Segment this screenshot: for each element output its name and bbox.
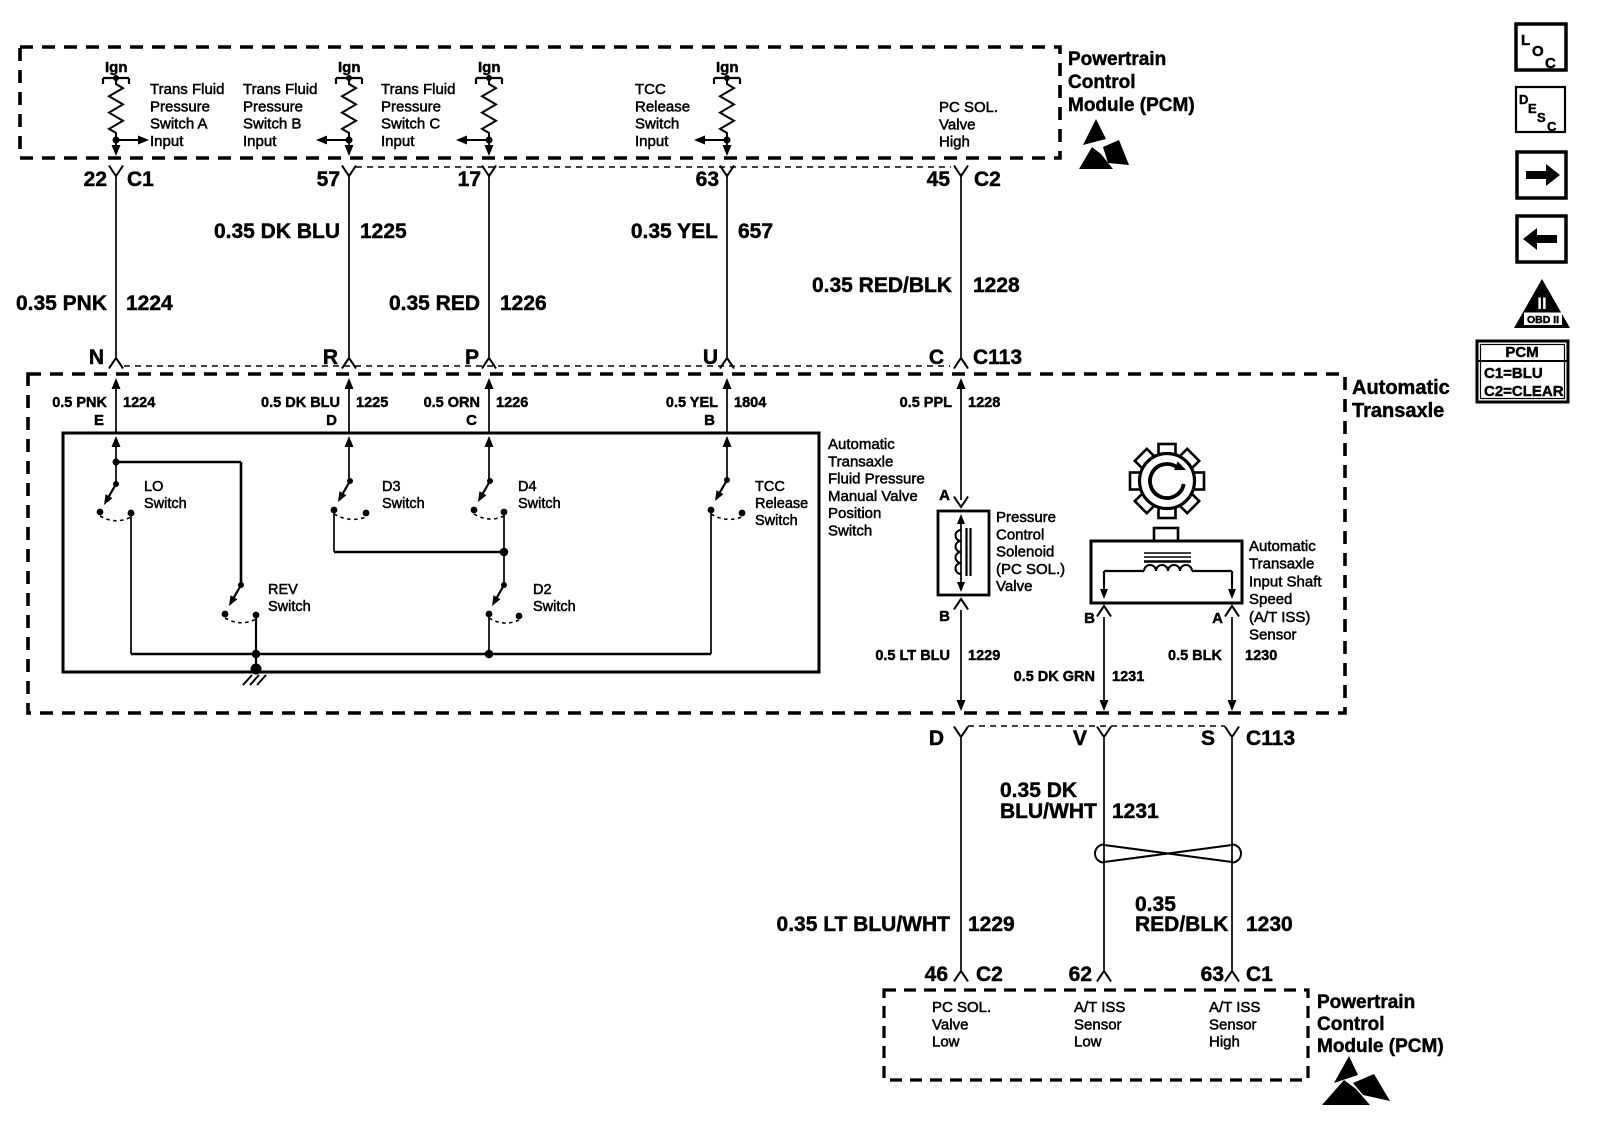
svg-text:Valve: Valve: [996, 578, 1032, 595]
svg-text:Module (PCM): Module (PCM): [1317, 1036, 1444, 1057]
label Automatic Transaxle: [1352, 377, 1450, 422]
signal arrow Trans Fluid Pressure Switch B: [316, 136, 349, 145]
svg-text:Switch: Switch: [144, 496, 187, 512]
svg-text:Switch: Switch: [828, 523, 872, 540]
svg-text:Valve: Valve: [939, 116, 975, 133]
svg-text:Ign: Ign: [478, 59, 501, 76]
svg-text:RED/BLK: RED/BLK: [1135, 913, 1228, 936]
svg-text:Switch: Switch: [382, 496, 425, 512]
svg-text:S: S: [1537, 110, 1546, 125]
svg-text:46: 46: [925, 963, 948, 986]
svg-text:Pressure: Pressure: [150, 98, 210, 115]
svg-text:Trans Fluid: Trans Fluid: [381, 81, 455, 98]
connector dashed line C2 row: [356, 166, 951, 168]
wire label 0.35 DK BLU/WHT 1231: [1000, 779, 1159, 823]
wire D3 contact down: [333, 510, 335, 552]
switch D4: [471, 478, 508, 519]
wire D3 to D4 link: [334, 551, 504, 554]
junction D2 at ground bus: [485, 650, 494, 659]
wire 1225 DK BLU: [348, 176, 350, 357]
svg-text:Low: Low: [932, 1034, 960, 1051]
svg-text:(PC SOL.): (PC SOL.): [996, 561, 1065, 578]
svg-text:C113: C113: [1246, 727, 1295, 750]
label LO: [144, 479, 187, 512]
resistor Trans Fluid Pressure Switch A: [109, 80, 123, 137]
wire 1229 LT BLU inside transaxle: [957, 610, 966, 711]
connector pin 63 bottom C1: [1201, 963, 1274, 986]
svg-text:45: 45: [927, 168, 951, 191]
svg-text:Valve: Valve: [932, 1016, 968, 1033]
svg-text:1229: 1229: [968, 648, 1000, 664]
svg-text:Transaxle: Transaxle: [1249, 556, 1314, 573]
connector pin 63: [696, 166, 734, 192]
svg-text:O: O: [1532, 43, 1544, 60]
svg-text:1224: 1224: [123, 395, 155, 411]
connector dashed line C113 top row: [124, 365, 950, 367]
svg-text:Transaxle: Transaxle: [828, 453, 893, 470]
junction REV at ground bus: [252, 650, 261, 659]
svg-text:Control: Control: [996, 526, 1044, 543]
svg-text:PCM: PCM: [1505, 344, 1538, 361]
svg-text:Automatic: Automatic: [1249, 538, 1316, 555]
label Powertrain Control Module (PCM) top: [1068, 49, 1195, 116]
svg-text:Switch: Switch: [755, 513, 798, 529]
svg-text:C113: C113: [973, 346, 1022, 369]
wire label 0.5 DK GRN 1231: [1014, 669, 1145, 685]
svg-text:A/T ISS: A/T ISS: [1074, 999, 1125, 1016]
svg-text:Position: Position: [828, 505, 881, 522]
svg-text:TCC: TCC: [635, 81, 666, 98]
label Trans Fluid Pressure Switch A Input: [150, 81, 224, 150]
wire D2 contact to ground bus: [488, 614, 490, 654]
svg-text:1230: 1230: [1246, 913, 1293, 936]
svg-text:Sensor: Sensor: [1249, 627, 1297, 644]
wire entry 0.5 ORN 1226: [424, 378, 529, 433]
svg-text:PC SOL.: PC SOL.: [932, 999, 991, 1016]
ground bus wire: [131, 653, 711, 656]
svg-text:Input: Input: [243, 133, 277, 150]
svg-text:C: C: [1545, 55, 1556, 72]
svg-text:0.5 DK GRN: 0.5 DK GRN: [1014, 669, 1095, 685]
switch TCC Release: [708, 477, 746, 519]
Ign feed Trans Fluid Pressure Switch C: [476, 59, 502, 84]
connector C113 terminal N: [89, 346, 123, 369]
svg-text:Release: Release: [635, 98, 690, 115]
wire TCC contact to ground bus: [710, 510, 712, 654]
wire label 0.35 YEL 657: [631, 220, 773, 243]
connector pin 17: [458, 166, 496, 192]
svg-text:Sensor: Sensor: [1209, 1016, 1257, 1033]
svg-text:TCC: TCC: [755, 479, 785, 495]
signal arrow TCC Release Switch: [694, 136, 727, 145]
svg-text:C2: C2: [976, 963, 1003, 986]
svg-text:Input: Input: [150, 133, 184, 150]
icon LOC button: [1516, 24, 1566, 72]
svg-text:0.5 PNK: 0.5 PNK: [52, 395, 107, 411]
node B ISS sensor: [1084, 606, 1111, 627]
svg-text:Input: Input: [635, 133, 669, 150]
wire to pin TCC Release Switch: [723, 140, 732, 156]
svg-text:Pressure: Pressure: [996, 509, 1056, 526]
svg-text:Input Shaft: Input Shaft: [1249, 573, 1322, 590]
resistor TCC Release Switch: [720, 80, 734, 137]
svg-text:1225: 1225: [360, 220, 407, 243]
svg-text:1230: 1230: [1245, 648, 1277, 664]
svg-text:Release: Release: [755, 496, 808, 512]
wire 1228 RED/BLK: [960, 176, 962, 357]
svg-text:U: U: [703, 346, 718, 369]
Ign feed TCC Release Switch: [714, 59, 740, 84]
ESD sensitive device symbol (bottom): [1322, 1056, 1390, 1105]
wire to pin Trans Fluid Pressure Switch C: [485, 140, 494, 156]
svg-text:0.35 LT BLU/WHT: 0.35 LT BLU/WHT: [777, 913, 951, 936]
svg-text:(A/T ISS): (A/T ISS): [1249, 609, 1310, 626]
svg-text:D: D: [1519, 92, 1528, 107]
svg-text:II: II: [1537, 294, 1546, 313]
svg-text:C2=CLEAR: C2=CLEAR: [1484, 383, 1564, 400]
svg-text:A/T ISS: A/T ISS: [1209, 999, 1260, 1016]
wire 1224 PNK: [115, 176, 117, 357]
wire 1230 RED/BLK: [1231, 738, 1233, 970]
svg-text:0.5 PPL: 0.5 PPL: [900, 395, 953, 411]
wire LO contact to ground bus: [130, 513, 132, 654]
label A/T ISS Sensor High: [1209, 999, 1260, 1051]
node A PC SOL valve: [939, 487, 968, 507]
svg-text:17: 17: [458, 168, 481, 191]
svg-text:Low: Low: [1074, 1034, 1102, 1051]
node LO branch junction: [113, 459, 120, 466]
svg-text:0.5 DK BLU: 0.5 DK BLU: [261, 395, 340, 411]
svg-text:1229: 1229: [968, 913, 1015, 936]
switch LO: [97, 481, 135, 521]
wire label 0.5 LT BLU 1229: [875, 648, 1000, 664]
icon back arrow button: [1517, 216, 1566, 262]
ground: [243, 664, 266, 686]
svg-text:C: C: [929, 346, 944, 369]
connector pin 62 bottom: [1069, 963, 1111, 986]
svg-text:0.35 RED/BLK: 0.35 RED/BLK: [812, 274, 952, 297]
wire label 0.35 DK BLU 1225: [214, 220, 407, 243]
icon OBD II: [1514, 279, 1570, 328]
ESD sensitive device symbol (top): [1079, 119, 1129, 169]
svg-text:E: E: [1528, 101, 1537, 116]
svg-text:Trans Fluid: Trans Fluid: [243, 81, 317, 98]
svg-text:Control: Control: [1317, 1014, 1385, 1035]
signal arrow Trans Fluid Pressure Switch A: [116, 136, 149, 145]
wire 657 YEL: [726, 176, 728, 357]
node Trans Fluid Pressure Switch A junction: [113, 137, 120, 144]
wire entry 0.5 PPL 1228: [900, 378, 1001, 500]
svg-text:0.35 RED: 0.35 RED: [389, 292, 480, 315]
node B PC SOL valve: [939, 599, 968, 625]
svg-text:A: A: [1212, 610, 1223, 627]
label Pressure Control Solenoid (PC SOL.) Valve: [996, 509, 1065, 595]
svg-text:V: V: [1073, 727, 1087, 750]
svg-text:1224: 1224: [126, 292, 173, 315]
wire entry 0.5 DK BLU 1225: [261, 378, 388, 433]
wire label 0.35 RED/BLK 1230: [1135, 893, 1293, 936]
svg-text:C: C: [466, 412, 477, 429]
node A ISS sensor: [1212, 606, 1239, 627]
svg-text:C2: C2: [974, 168, 1001, 191]
wire label 0.5 BLK 1230: [1168, 648, 1277, 664]
svg-text:Transaxle: Transaxle: [1352, 400, 1444, 422]
svg-text:High: High: [939, 134, 970, 151]
svg-text:C1=BLU: C1=BLU: [1484, 365, 1543, 382]
svg-text:57: 57: [317, 168, 340, 191]
node TCC Release Switch junction: [724, 137, 731, 144]
svg-text:0.35 DK: 0.35 DK: [1000, 779, 1077, 802]
switch REV: [222, 582, 260, 623]
wire REV contact to ground: [255, 615, 257, 669]
wire 1229 LT BLU/WHT: [960, 738, 962, 970]
wire 1231 DK BLU/WHT: [1103, 738, 1105, 970]
connector pin 46 bottom C2: [925, 963, 1003, 986]
label TCC Release: [755, 479, 808, 529]
svg-text:D4: D4: [518, 479, 537, 495]
wire label 0.35 LT BLU/WHT 1229: [777, 913, 1015, 936]
svg-text:0.5 YEL: 0.5 YEL: [666, 395, 718, 411]
legend PCM connector colors: [1477, 341, 1568, 402]
svg-text:D: D: [326, 412, 337, 429]
svg-text:A: A: [939, 487, 950, 504]
svg-text:C1: C1: [1246, 963, 1273, 986]
svg-text:62: 62: [1069, 963, 1092, 986]
connector C113 terminal S bottom: [1201, 727, 1295, 751]
svg-text:Ign: Ign: [716, 59, 739, 76]
label TCC Release Switch Input: [635, 81, 690, 150]
svg-text:Ign: Ign: [105, 59, 128, 76]
wire entry 0.5 PNK 1224: [52, 378, 155, 433]
wire label 0.35 RED/BLK 1228: [812, 274, 1020, 297]
label Trans Fluid Pressure Switch B Input: [243, 81, 317, 150]
svg-text:1226: 1226: [500, 292, 547, 315]
svg-text:Switch A: Switch A: [150, 116, 208, 133]
svg-text:Pressure: Pressure: [381, 98, 441, 115]
label A/T ISS Sensor Low: [1074, 999, 1125, 1051]
label PC SOL Valve Low: [932, 999, 991, 1051]
svg-text:High: High: [1209, 1034, 1240, 1051]
connector C113 terminal D bottom: [929, 727, 968, 751]
svg-text:C1: C1: [127, 168, 154, 191]
svg-text:0.5 ORN: 0.5 ORN: [424, 395, 480, 411]
svg-text:Trans Fluid: Trans Fluid: [150, 81, 224, 98]
twisted pair symbol: [1095, 845, 1241, 863]
wire to pin Trans Fluid Pressure Switch B: [345, 140, 354, 156]
svg-text:Switch: Switch: [635, 116, 679, 133]
svg-text:Ign: Ign: [338, 59, 361, 76]
svg-text:B: B: [1084, 610, 1095, 627]
resistor Trans Fluid Pressure Switch B: [342, 80, 356, 137]
svg-text:Fluid Pressure: Fluid Pressure: [828, 471, 925, 488]
svg-text:PC SOL.: PC SOL.: [939, 99, 998, 116]
wire stub into switch box: [485, 436, 494, 481]
svg-text:Solenoid: Solenoid: [996, 544, 1054, 561]
svg-text:1226: 1226: [496, 395, 528, 411]
svg-text:E: E: [94, 412, 104, 429]
svg-text:D3: D3: [382, 479, 401, 495]
svg-text:63: 63: [1201, 963, 1224, 986]
svg-text:Powertrain: Powertrain: [1317, 992, 1415, 1013]
wire LO pivot stem: [115, 462, 117, 484]
connector pin 22 C1: [84, 166, 155, 192]
icon DESC button: [1516, 87, 1565, 134]
label D2: [533, 582, 576, 615]
svg-text:0.5 LT BLU: 0.5 LT BLU: [875, 648, 950, 664]
svg-text:Speed: Speed: [1249, 591, 1292, 608]
svg-text:Switch: Switch: [518, 496, 561, 512]
label Automatic Transaxle Input Shaft Speed (A/T ISS) Sensor: [1249, 538, 1322, 644]
svg-text:1804: 1804: [734, 395, 766, 411]
svg-text:Control: Control: [1068, 72, 1136, 93]
connector C113 terminal V bottom: [1073, 727, 1111, 751]
svg-text:L: L: [1521, 32, 1530, 49]
svg-text:BLU/WHT: BLU/WHT: [1000, 800, 1097, 823]
svg-text:C: C: [1547, 119, 1557, 134]
svg-text:Pressure: Pressure: [243, 98, 303, 115]
switch D3: [331, 478, 370, 519]
icon forward arrow button: [1517, 152, 1566, 198]
wire 1226 RED: [488, 176, 490, 357]
svg-text:1228: 1228: [968, 395, 1000, 411]
connector dashed line C113 bottom row: [968, 725, 1225, 727]
resistor Trans Fluid Pressure Switch C: [482, 80, 496, 137]
wire entry 0.5 YEL 1804: [666, 378, 766, 433]
svg-text:B: B: [704, 412, 715, 429]
svg-text:REV: REV: [268, 582, 298, 598]
svg-text:0.35 YEL: 0.35 YEL: [631, 220, 718, 243]
signal arrow Trans Fluid Pressure Switch C: [456, 136, 489, 145]
wire label 0.35 RED 1226: [389, 292, 547, 315]
svg-text:S: S: [1201, 727, 1215, 750]
Automatic Transaxle Fluid Pressure Manual Valve Position Switch box: [63, 433, 819, 672]
solenoid PC SOL valve: [938, 511, 989, 595]
wire stub into switch box: [723, 436, 732, 480]
svg-text:Manual Valve: Manual Valve: [828, 488, 918, 505]
node Trans Fluid Pressure Switch B junction: [346, 137, 353, 144]
svg-text:0.35 DK BLU: 0.35 DK BLU: [214, 220, 340, 243]
svg-text:Sensor: Sensor: [1074, 1016, 1122, 1033]
svg-text:63: 63: [696, 168, 719, 191]
wire 1230 BLK inside transaxle: [1228, 617, 1237, 711]
Ign feed Trans Fluid Pressure Switch B: [336, 59, 362, 84]
wire D4 contact down to D2: [503, 512, 505, 585]
label Manual Valve Position Switch: [828, 436, 925, 540]
svg-text:D2: D2: [533, 582, 552, 598]
svg-text:1225: 1225: [356, 395, 388, 411]
wire stub into switch box: [345, 436, 354, 481]
label D3: [382, 479, 425, 512]
svg-text:1231: 1231: [1112, 800, 1159, 823]
connector pin 45 C2: [927, 166, 1001, 192]
svg-text:Switch: Switch: [533, 599, 576, 615]
PCM module box (top): [20, 47, 1060, 158]
svg-text:Switch B: Switch B: [243, 116, 301, 133]
svg-text:Automatic: Automatic: [828, 436, 895, 453]
wire to pin Trans Fluid Pressure Switch A: [112, 140, 121, 156]
svg-text:Switch C: Switch C: [381, 116, 440, 133]
svg-text:1228: 1228: [973, 274, 1020, 297]
label Powertrain Control Module (PCM) bottom: [1317, 992, 1444, 1057]
svg-text:0.35 PNK: 0.35 PNK: [16, 292, 107, 315]
svg-text:Automatic: Automatic: [1352, 377, 1450, 399]
svg-text:Switch: Switch: [268, 599, 311, 615]
Automatic Transaxle box: [28, 374, 1345, 713]
junction D3/D4 link: [500, 548, 509, 557]
svg-text:N: N: [89, 346, 104, 369]
svg-text:Module (PCM): Module (PCM): [1068, 95, 1195, 116]
wire stub into switch box: [112, 436, 121, 462]
connector C113 terminal U: [703, 346, 734, 369]
wire 1231 DK GRN inside transaxle: [1100, 617, 1109, 711]
svg-text:657: 657: [738, 220, 773, 243]
svg-text:22: 22: [84, 168, 107, 191]
svg-text:LO: LO: [144, 479, 163, 495]
sensor A/T ISS box: [1091, 528, 1242, 603]
label D4: [518, 479, 561, 512]
label Trans Fluid Pressure Switch C Input: [381, 81, 455, 150]
svg-text:P: P: [465, 346, 479, 369]
connector pin 57: [317, 166, 356, 192]
svg-text:Input: Input: [381, 133, 415, 150]
label REV: [268, 582, 311, 615]
connector C113 terminal C: [929, 346, 1022, 369]
wire label 0.35 PNK 1224: [16, 292, 173, 315]
PCM module box (bottom): [884, 990, 1308, 1080]
svg-text:1231: 1231: [1112, 669, 1144, 685]
wire branch to REV switch: [116, 462, 241, 585]
Ign feed Trans Fluid Pressure Switch A: [103, 59, 129, 84]
svg-text:OBD II: OBD II: [1527, 314, 1559, 326]
connector C113 terminal R: [323, 346, 356, 369]
label PC SOL. Valve High: [939, 99, 998, 151]
svg-text:B: B: [939, 608, 950, 625]
gear icon input shaft: [1130, 444, 1204, 518]
node Trans Fluid Pressure Switch C junction: [486, 137, 493, 144]
svg-text:Powertrain: Powertrain: [1068, 49, 1166, 70]
svg-text:R: R: [323, 346, 338, 369]
connector C113 terminal P: [465, 346, 496, 369]
svg-text:D: D: [929, 727, 944, 750]
svg-text:0.5 BLK: 0.5 BLK: [1168, 648, 1223, 664]
switch D2: [486, 582, 523, 623]
